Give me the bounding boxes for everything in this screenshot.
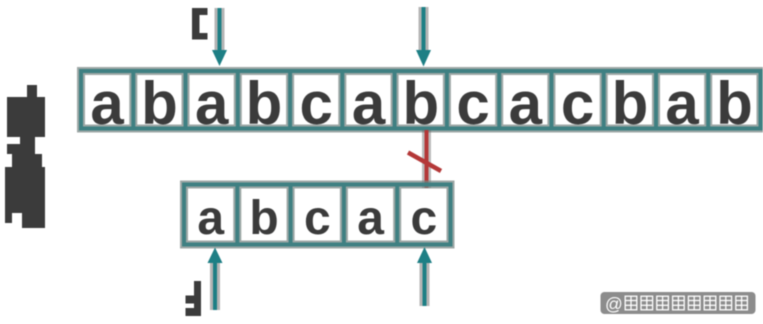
red mismatch mark (vertical connector with slash) bbox=[408, 130, 441, 188]
svg-text:b: b bbox=[249, 192, 278, 245]
svg-text:b: b bbox=[612, 70, 649, 137]
svg-text:c: c bbox=[456, 70, 489, 137]
pointer label [ (top, left of first down-arrow) bbox=[192, 8, 208, 40]
svg-text:a: a bbox=[665, 70, 699, 137]
svg-text:c: c bbox=[411, 192, 438, 245]
svg-text:b: b bbox=[246, 70, 283, 137]
bottom table grid (5 cells, teal) bbox=[184, 185, 451, 245]
svg-text:c: c bbox=[561, 70, 594, 137]
watermark band @稀土掘金技术社区 bbox=[601, 292, 756, 314]
svg-text:b: b bbox=[402, 70, 439, 137]
svg-text:a: a bbox=[352, 70, 386, 137]
svg-text:@: @ bbox=[605, 294, 623, 314]
watermark CJK glyph blocks bbox=[625, 296, 747, 310]
svg-text:a: a bbox=[195, 70, 229, 137]
bottom table halo bbox=[184, 185, 451, 245]
pointer label (bottom, mirrored-E mark left of first up-arrow) bbox=[186, 281, 202, 316]
top table halo bbox=[81, 71, 761, 129]
svg-text:a: a bbox=[357, 192, 384, 245]
svg-text:a: a bbox=[197, 192, 224, 245]
left label 第三趟 (vertical Chinese text, clipped at left edge) bbox=[5, 85, 45, 228]
svg-text:c: c bbox=[304, 192, 331, 245]
top down-arrow 2 (at cell 7) bbox=[416, 7, 431, 67]
top table letters: a b a b c a b c a c b a b bbox=[90, 70, 752, 137]
bottom up-arrow 2 (at pattern cell 5) bbox=[417, 247, 432, 306]
svg-text:a: a bbox=[509, 70, 543, 137]
svg-text:b: b bbox=[141, 70, 178, 137]
top down-arrow 1 (at cell 3) bbox=[212, 8, 227, 66]
bottom up-arrow 1 (at pattern cell 1) bbox=[208, 248, 223, 311]
bottom table letters: a b c a c bbox=[197, 192, 437, 245]
svg-text:b: b bbox=[716, 70, 753, 137]
svg-text:a: a bbox=[90, 70, 124, 137]
svg-text:c: c bbox=[300, 70, 333, 137]
top table grid (13 cells, teal) bbox=[81, 71, 761, 129]
